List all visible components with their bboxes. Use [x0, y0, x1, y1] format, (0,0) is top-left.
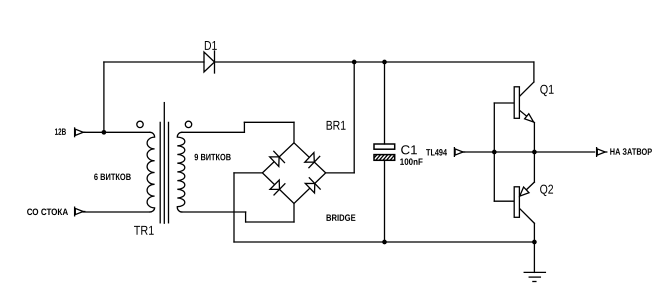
svg-text:TL494: TL494 [426, 148, 448, 158]
svg-text:12В: 12В [55, 127, 67, 137]
svg-text:Q1: Q1 [540, 82, 555, 97]
svg-text:Q2: Q2 [540, 182, 554, 197]
svg-text:9 ВИТКОВ: 9 ВИТКОВ [194, 152, 231, 162]
svg-text:BR1: BR1 [326, 118, 346, 133]
svg-text:6 ВИТКОВ: 6 ВИТКОВ [94, 172, 131, 182]
svg-text:BRIDGE: BRIDGE [326, 213, 356, 223]
svg-text:TR1: TR1 [134, 223, 154, 238]
svg-text:СО СТОКА: СО СТОКА [27, 207, 69, 217]
svg-text:C1: C1 [400, 142, 417, 157]
svg-text:НА ЗАТВОР: НА ЗАТВОР [610, 147, 652, 157]
svg-text:100nF: 100nF [400, 157, 423, 167]
svg-text:D1: D1 [204, 38, 217, 53]
